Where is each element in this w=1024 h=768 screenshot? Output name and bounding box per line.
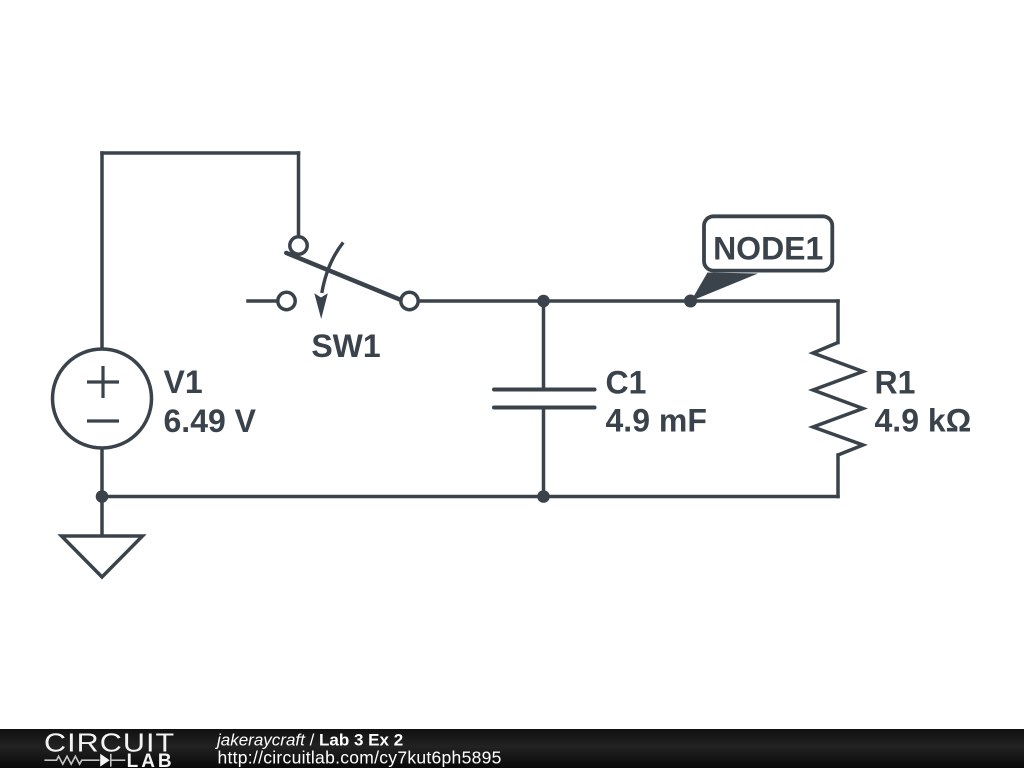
svg-text:SW1: SW1 [311, 328, 380, 364]
wire top from V1 to switch [102, 151, 299, 155]
ground [62, 536, 143, 577]
wire V1 bottom to ground [100, 448, 104, 536]
svg-text:http://circuitlab.com/cy7kut6p: http://circuitlab.com/cy7kut6ph5895 [218, 747, 502, 767]
footer band [0, 729, 1024, 768]
node dot bottom left [96, 490, 109, 503]
svg-text:4.9 kΩ: 4.9 kΩ [875, 403, 972, 439]
switch terminal top [290, 237, 307, 254]
capacitor C1 plates [494, 390, 595, 408]
switch SW1 [278, 237, 418, 319]
switch terminal left [278, 292, 295, 309]
node dot cap top [537, 295, 550, 308]
wire capacitor top [542, 301, 546, 388]
switch blade [286, 253, 400, 300]
switch arrow [322, 242, 343, 293]
logo resistor-diode [44, 754, 125, 767]
NODE1 flag [691, 216, 832, 301]
svg-text:C1: C1 [606, 365, 647, 401]
wire switch drop [297, 153, 301, 236]
wire switch open stub [248, 299, 277, 303]
svg-text:4.9 mF: 4.9 mF [606, 403, 707, 439]
svg-text:NODE1: NODE1 [713, 231, 823, 267]
node dot NODE1 [684, 295, 697, 308]
voltage source V1 [53, 349, 152, 448]
svg-text:6.49 V: 6.49 V [164, 403, 257, 439]
wire resistor top [836, 301, 840, 343]
svg-text:LAB: LAB [127, 751, 175, 768]
node dot cap bottom [537, 490, 550, 503]
svg-text:R1: R1 [875, 365, 916, 401]
wire resistor bottom [836, 455, 840, 497]
wire switch to node corner [420, 299, 839, 303]
labels [164, 328, 972, 439]
junction dots [96, 295, 697, 503]
switch terminal right [401, 292, 418, 309]
resistor R1 zigzag [813, 343, 863, 456]
wire left vertical V1 top [100, 153, 104, 349]
wire capacitor bottom [542, 410, 546, 497]
svg-text:V1: V1 [164, 364, 203, 400]
wire bottom rail [102, 495, 838, 499]
